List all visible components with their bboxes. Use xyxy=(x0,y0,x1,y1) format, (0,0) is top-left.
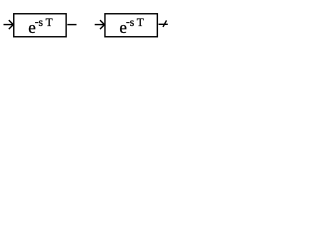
svg-text:s: s xyxy=(39,17,44,29)
svg-text:T: T xyxy=(137,17,144,29)
svg-text:s: s xyxy=(130,17,135,29)
svg-text:T: T xyxy=(46,17,53,29)
